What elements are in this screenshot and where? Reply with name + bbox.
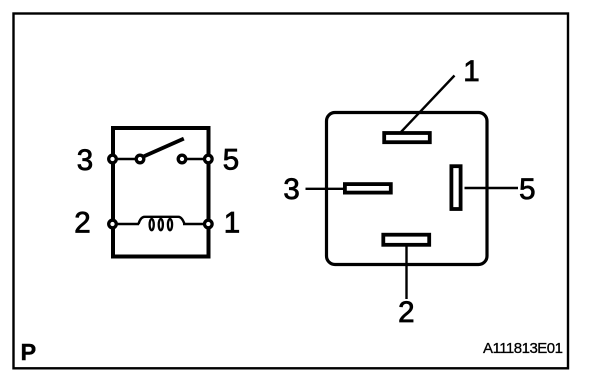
- svg-text:1: 1: [224, 206, 240, 239]
- svg-text:5: 5: [519, 173, 535, 206]
- svg-text:A111813E01: A111813E01: [483, 340, 563, 357]
- svg-text:2: 2: [398, 296, 414, 329]
- svg-text:P: P: [21, 339, 37, 365]
- svg-text:2: 2: [74, 206, 90, 239]
- svg-text:3: 3: [283, 173, 299, 206]
- svg-text:1: 1: [463, 55, 479, 88]
- svg-text:5: 5: [223, 144, 239, 177]
- svg-text:3: 3: [77, 144, 93, 177]
